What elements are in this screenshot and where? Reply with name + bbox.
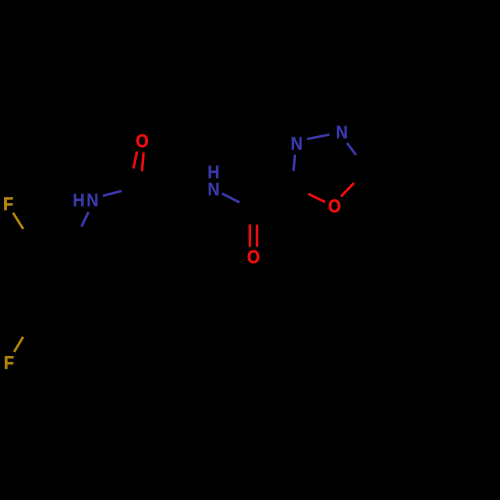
wire C7=O1 double bond line 1 [133,151,137,168]
fluorine F1 label [4,197,12,210]
fluorine F2 label [5,356,13,369]
wire O3-C2 half-bond [341,183,354,197]
wire N3-N4 bond [307,135,330,140]
wire C11=O2 double bond line 2 [256,225,259,247]
wire N1-C7 half-bond [103,191,122,196]
amide N2 label N [209,183,219,196]
amide N2 hydrogen label H [209,166,219,179]
oxygen O1 label (left carbonyl) [136,134,148,147]
wire O3-C5 half-bond [308,194,325,202]
ring nitrogen N3 label [292,137,302,150]
amide N1 hydrogen label H [74,194,84,207]
wire N1-C9 half-bond [82,212,89,227]
wire C7=O1 double bond line 2 [142,153,144,172]
amide N1 label N [88,194,98,207]
ring nitrogen N4 label [337,126,347,139]
wire N2-C11 half-bond [222,194,240,203]
oxygen O2 label (right carbonyl) [248,250,260,263]
wire N3-C5 half-bond [294,155,296,172]
wire C11=O2 double bond line 1 [249,224,252,246]
wire F2-C10 half-bond [14,337,23,352]
ring oxygen O3 label [329,199,341,212]
wire N4-C2 half-bond [347,143,356,155]
wire F1-C8 half-bond [13,213,23,229]
